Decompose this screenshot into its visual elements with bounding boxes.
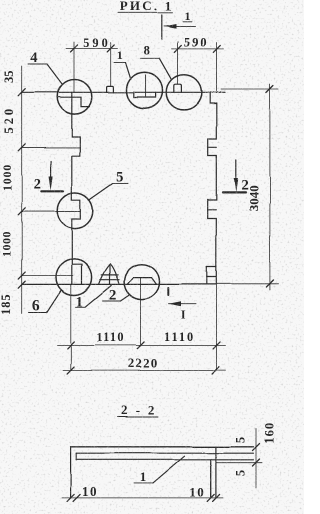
section marker 1 (top): [161, 9, 195, 40]
svg-text:1110: 1110: [164, 330, 195, 344]
plate left edge with notches: [72, 92, 81, 284]
svg-text:РИС. 1: РИС. 1: [120, 0, 174, 14]
plate bottom edge: [22, 283, 217, 285]
section marker 2 (right): [223, 160, 249, 194]
circle D (left notch detail): [57, 193, 93, 229]
svg-text:1000: 1000: [0, 231, 14, 257]
svg-text:185: 185: [0, 293, 13, 314]
section right dimension 5 / 160 / 5: [217, 429, 262, 489]
label 1 (to top notch detail): [114, 48, 131, 79]
svg-text:1: 1: [76, 294, 84, 310]
section bottom extension lines: [0, 0, 1, 1]
circle A (top-left corner detail): [57, 80, 92, 115]
svg-text:1: 1: [139, 470, 146, 485]
triangle mark on bottom edge: [99, 264, 120, 284]
title РИС. 1: [118, 0, 173, 14]
svg-text:I: I: [181, 308, 186, 322]
svg-text:1: 1: [117, 48, 123, 62]
svg-text:35: 35: [2, 71, 16, 84]
notch R2 middle line: [208, 209, 217, 211]
plate right edge with corner step and notches: [208, 92, 217, 284]
svg-text:2220: 2220: [127, 356, 158, 371]
label 6: [29, 290, 62, 315]
extension lines below plate: [71, 278, 217, 371]
circle F (bottom trapezoid detail): [124, 264, 159, 299]
svg-text:5: 5: [116, 169, 123, 185]
section profile underside line: [76, 459, 253, 461]
section bottom dimension 10,10: [62, 494, 224, 501]
svg-text:5: 5: [233, 437, 247, 443]
svg-text:590: 590: [184, 36, 208, 50]
svg-text:6: 6: [32, 298, 40, 315]
left dimension chain line: [18, 66, 73, 314]
svg-text:3040: 3040: [246, 185, 261, 211]
centerline of detail B: [145, 75, 147, 96]
section right lip: [210, 460, 212, 498]
svg-text:160: 160: [262, 422, 276, 444]
small bump detail C: [174, 84, 182, 92]
notch L2 middle line + extension: [22, 211, 80, 213]
dimension 1110 + 1110: [57, 342, 226, 349]
svg-text:8: 8: [144, 44, 150, 58]
trapezoid bump inside circle F: [127, 278, 156, 285]
section marker 2 (left): [33, 162, 63, 193]
section marker I (bottom): [168, 288, 196, 322]
section profile second line: [76, 452, 253, 454]
dimension 2220: [63, 367, 226, 374]
corner step inside circle E: [72, 265, 81, 285]
circle E (bottom-left corner detail): [56, 259, 92, 295]
label 2 (bottom, to circle F): [103, 288, 129, 304]
svg-text:1000: 1000: [0, 164, 14, 191]
svg-text:590: 590: [83, 36, 110, 50]
notch L1 middle line + extension: [22, 147, 80, 149]
label 8: [141, 44, 172, 80]
bump 1 on top edge: [107, 86, 114, 92]
label 1 (section): [134, 456, 185, 484]
svg-text:1110: 1110: [96, 331, 124, 345]
svg-text:10: 10: [82, 484, 98, 499]
svg-text:10: 10: [190, 485, 206, 500]
title 2 - 2: [118, 402, 159, 417]
label 1 (bottom, to triangle): [76, 286, 112, 311]
circle B (top notch detail): [127, 72, 163, 108]
dimension 590 left: [66, 36, 118, 92]
plate top edge: [22, 91, 225, 93]
svg-text:5: 5: [233, 470, 247, 476]
notch under top edge (detail B): [134, 92, 156, 97]
svg-text:520: 520: [2, 106, 16, 134]
section profile top line: [71, 446, 254, 448]
svg-text:2: 2: [33, 176, 41, 192]
bottom-right bump with middle line: [207, 267, 217, 285]
corner step inside circle A: [58, 97, 90, 106]
right dimension 3040: [217, 84, 279, 290]
label 5: [89, 169, 128, 200]
label 4: [28, 50, 62, 84]
section left lip: [70, 447, 72, 498]
dimension 590 right: [172, 36, 224, 93]
notch R1 middle line: [208, 146, 217, 148]
svg-text:2 - 2: 2 - 2: [121, 402, 157, 417]
svg-text:1: 1: [184, 9, 190, 23]
circle C (top bump detail): [166, 75, 201, 110]
